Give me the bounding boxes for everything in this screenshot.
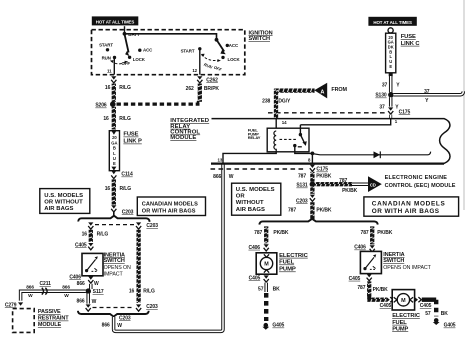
svg-text:LINK P: LINK P	[123, 139, 142, 145]
splice S117	[85, 288, 91, 294]
connector C175 (top)	[388, 107, 393, 114]
svg-text:W: W	[28, 293, 33, 299]
svg-text:C405: C405	[249, 275, 261, 281]
svg-text:C405: C405	[380, 303, 392, 309]
svg-text:PASSIVE: PASSIVE	[38, 309, 61, 315]
connector C405 left of pump (Canadian)	[387, 297, 394, 302]
inertia switch box (U.S.)	[82, 253, 103, 275]
connector C203 (lower U.S.)	[86, 304, 91, 311]
wire bend into pump (Canadian)	[367, 298, 386, 302]
svg-text:C114: C114	[121, 172, 133, 178]
svg-text:C203: C203	[119, 315, 131, 321]
svg-text:C279: C279	[5, 302, 17, 308]
wire 37 Y from S130 to right edge	[393, 91, 463, 94]
svg-text:WITHOUT: WITHOUT	[236, 200, 264, 206]
option box: U.S. models (left)	[40, 189, 90, 214]
svg-text:866: 866	[213, 174, 221, 180]
svg-text:CANADIAN MODELS: CANADIAN MODELS	[372, 201, 446, 208]
splice S206	[110, 101, 116, 107]
option box: Canadian models (left)	[137, 197, 205, 216]
wire 57 BK from pump (U.S.)	[264, 283, 268, 292]
module bottom edge (thick)	[211, 162, 444, 164]
ground G405 (Canadian)	[433, 318, 440, 325]
svg-text:C406: C406	[69, 274, 81, 280]
connector C203 (Canadian branch)	[136, 222, 141, 229]
fuse link P	[109, 131, 119, 171]
inertia switch box (Canadian)	[360, 251, 381, 273]
wire 262 BR/PK from pin 12	[198, 84, 202, 102]
module box with torn right edge	[212, 119, 451, 164]
svg-text:14: 14	[282, 120, 287, 125]
svg-text:AIR BAGS: AIR BAGS	[236, 207, 265, 213]
hot-at-all-times label (right)	[368, 17, 416, 26]
svg-text:787: 787	[339, 178, 347, 184]
svg-text:R/LG: R/LG	[119, 85, 131, 91]
wire 787 PK/BK from C203 to split	[310, 202, 314, 219]
svg-text:R/LG: R/LG	[97, 231, 109, 237]
svg-text:PK/BK: PK/BK	[342, 188, 358, 194]
svg-text:238: 238	[262, 98, 270, 104]
svg-text:OPENS ON: OPENS ON	[104, 265, 131, 271]
svg-text:C203: C203	[146, 223, 158, 229]
svg-text:866: 866	[77, 281, 85, 287]
svg-text:C262: C262	[206, 77, 218, 83]
svg-text:LOCK: LOCK	[228, 57, 241, 62]
svg-text:PK/BK: PK/BK	[316, 207, 332, 213]
svg-text:16: 16	[129, 288, 135, 294]
svg-text:R/LG: R/LG	[120, 186, 132, 192]
svg-text:W: W	[117, 323, 122, 329]
svg-text:CONTROL (EEC) MODULE: CONTROL (EEC) MODULE	[385, 183, 456, 189]
connector below pin 11	[111, 76, 116, 83]
svg-text:RESTRAINT: RESTRAINT	[38, 316, 69, 322]
splice S130	[388, 92, 394, 98]
svg-text:C405: C405	[75, 242, 87, 248]
svg-text:M: M	[264, 262, 269, 268]
connector C114	[111, 171, 116, 174]
off-page arrow A (FROM)	[314, 83, 327, 99]
wire 787 PK/BK from S131 down	[310, 187, 314, 194]
wire pin14 to relay coil	[275, 119, 277, 131]
connector C405 (U.S.)	[88, 243, 93, 250]
node BATT stub	[124, 26, 126, 34]
inertia switch symbol (U.S.)	[85, 256, 98, 272]
svg-text:C406: C406	[354, 245, 366, 251]
svg-text:FUSE: FUSE	[123, 132, 138, 138]
svg-text:A: A	[320, 90, 324, 96]
connector C175 (bottom)	[310, 165, 315, 172]
svg-text:C405: C405	[420, 303, 432, 309]
hot-at-all-times label (left)	[92, 16, 139, 25]
svg-text:IMPACT: IMPACT	[104, 271, 124, 277]
wire 866 W below merge	[112, 317, 116, 329]
wire 238 DG/Y down to module pin 14	[274, 89, 278, 119]
svg-text:W: W	[229, 174, 234, 180]
svg-text:866: 866	[26, 285, 34, 291]
svg-text:HOT AT ALL TIMES: HOT AT ALL TIMES	[373, 20, 412, 25]
svg-text:W: W	[94, 281, 99, 287]
selector arc (left section)	[111, 61, 127, 64]
svg-text:37: 37	[382, 83, 388, 89]
svg-text:HOT AT ALL TIMES: HOT AT ALL TIMES	[96, 19, 135, 24]
option box: U.S. models (middle)	[232, 183, 281, 215]
node BATT	[123, 32, 127, 36]
svg-text:C203: C203	[122, 209, 134, 215]
wire from START contact to pin 12	[199, 49, 201, 75]
module internal feed line from pin 1 to relay contact	[300, 119, 390, 125]
svg-text:S131: S131	[296, 183, 308, 189]
svg-text:ACC: ACC	[229, 43, 239, 48]
selector arc (right section)	[202, 55, 220, 61]
svg-text:ELECTRIC: ELECTRIC	[279, 253, 308, 259]
wire 57 BK (black, U.S.)	[264, 293, 268, 321]
svg-text:DG/Y: DG/Y	[278, 98, 291, 104]
svg-text:C175: C175	[316, 167, 328, 173]
svg-text:SWITCH: SWITCH	[249, 36, 271, 42]
svg-text:C406: C406	[248, 245, 260, 251]
svg-text:BK: BK	[273, 287, 281, 293]
svg-text:CD: CD	[370, 182, 376, 187]
svg-text:S130: S130	[375, 93, 387, 99]
svg-text:12: 12	[192, 68, 197, 73]
svg-text:PK/BK: PK/BK	[316, 174, 332, 180]
connector C405 (inertia, Canadian)	[367, 274, 372, 281]
connector C203 (main)	[111, 205, 116, 212]
svg-text:OR WITHOUT: OR WITHOUT	[44, 199, 83, 205]
svg-text:MODULE: MODULE	[170, 135, 196, 141]
dashed option line between lower C203 halves	[93, 307, 135, 309]
clamping diode D1	[313, 154, 429, 155]
svg-text:787: 787	[361, 230, 369, 236]
wire 37 Y fuse link C to S130	[389, 76, 393, 92]
ground G405 (U.S.)	[262, 323, 269, 330]
ignition switch dashed box	[92, 30, 245, 75]
wire 866 W below inertia switch	[89, 284, 93, 289]
dashed option separator (top)	[268, 112, 386, 114]
RUN OFF italic labels (right section)	[203, 62, 213, 70]
svg-text:G405: G405	[444, 323, 456, 329]
wire relay contact to pin 8	[295, 146, 313, 164]
wire segment: 262 BR/PK branch to S206 (dashed hatched)	[117, 102, 200, 105]
wire 37 Y from S130 down to C175	[389, 97, 393, 106]
svg-text:787: 787	[254, 230, 262, 236]
wire 16 R/LG Canadian branch	[136, 230, 140, 303]
svg-text:OR WITH AIR BAGS: OR WITH AIR BAGS	[372, 208, 440, 215]
svg-text:13: 13	[218, 158, 223, 163]
relay coil	[274, 131, 276, 152]
svg-text:RUN: RUN	[102, 56, 111, 61]
fuse link C	[386, 28, 396, 73]
wire 866 W from S117 to C279	[21, 291, 86, 300]
off-page arrow D to EEC	[368, 176, 382, 192]
svg-text:W: W	[64, 293, 69, 299]
junction at pin 8 line	[311, 152, 315, 156]
wire 866 W bottom run to module pin 13	[114, 165, 223, 332]
wire 787 PK/BK from C175 to S131	[310, 172, 314, 182]
svg-text:37: 37	[379, 105, 385, 111]
svg-text:PK/BK: PK/BK	[373, 287, 389, 293]
svg-text:866: 866	[77, 298, 85, 304]
wire relay coil to pin 13	[223, 152, 276, 164]
relay contact	[299, 125, 301, 134]
svg-text:OPENS ON IMPACT: OPENS ON IMPACT	[383, 265, 431, 271]
svg-text:FUSE: FUSE	[401, 34, 416, 40]
connector C203 (lower Canadian)	[136, 304, 141, 311]
passive restraint module dashed box	[13, 309, 35, 333]
fuel pump relay box	[267, 128, 309, 152]
connector C262	[197, 76, 202, 83]
relay linkage dashed	[280, 138, 297, 140]
pivot node (right section)	[215, 38, 219, 42]
connector C279	[18, 302, 23, 305]
svg-text:AIR BAGS: AIR BAGS	[44, 206, 73, 212]
svg-text:G405: G405	[272, 323, 284, 329]
svg-text:16: 16	[105, 186, 111, 192]
wire 787 PK/BK to inertia switch (Canadian)	[370, 226, 374, 244]
svg-text:S117: S117	[93, 289, 104, 295]
svg-text:LOCK: LOCK	[133, 57, 146, 62]
svg-text:PUMP: PUMP	[279, 267, 296, 273]
ignition switch wiper arm (left section)	[125, 34, 129, 53]
svg-text:MODULE: MODULE	[38, 322, 62, 328]
connector C406 (pump, U.S.)	[264, 244, 269, 251]
svg-text:SWITCH: SWITCH	[383, 258, 404, 264]
wire BATT feed to right switch section	[125, 34, 217, 39]
svg-text:BK: BK	[441, 311, 449, 317]
svg-text:PK/BK: PK/BK	[377, 230, 393, 236]
svg-text:866: 866	[62, 285, 70, 291]
svg-text:866: 866	[102, 322, 110, 328]
relay fixed contact	[293, 144, 296, 147]
svg-text:37: 37	[424, 89, 430, 95]
svg-text:FUEL: FUEL	[279, 260, 294, 266]
electric fuel pump M1 (U.S.)	[256, 253, 277, 274]
wire 16 R/LG to inertia switch (U.S.)	[89, 230, 93, 242]
wire 16 R/LG from S206 to fuse link P	[112, 107, 116, 130]
connector C406 (inertia, Canadian)	[370, 245, 375, 252]
svg-text:262: 262	[186, 86, 194, 92]
svg-text:START: START	[181, 49, 195, 54]
wire 238 DG/Y horizontal	[276, 88, 315, 92]
svg-text:U.S. MODELS: U.S. MODELS	[236, 187, 275, 193]
svg-text:787: 787	[298, 174, 306, 180]
svg-text:START: START	[99, 42, 113, 47]
svg-text:ACC: ACC	[143, 47, 153, 52]
svg-text:16: 16	[103, 116, 109, 122]
svg-text:C175: C175	[399, 109, 411, 115]
dashed option separator (below module)	[211, 168, 306, 170]
wire 787 PK/BK from inertia switch	[367, 281, 371, 297]
svg-text:16: 16	[82, 231, 88, 237]
electric fuel pump M2 (Canadian)	[392, 290, 414, 310]
svg-text:SWITCH: SWITCH	[104, 258, 125, 264]
svg-text:R/LG: R/LG	[143, 288, 155, 294]
wire 866 W from S117 down	[86, 294, 90, 304]
dashed option line between C203 halves	[95, 224, 134, 226]
merge bracket above C203 to single 866 W wire	[78, 311, 149, 317]
svg-text:PK/BK: PK/BK	[273, 230, 289, 236]
svg-text:FROM: FROM	[331, 87, 347, 93]
svg-text:16: 16	[105, 85, 111, 91]
wire 16 R/LG from C114 to C203	[112, 179, 116, 204]
wire 16 R/LG from pin 11	[112, 84, 116, 102]
connector C203 (U.S. branch)	[88, 222, 93, 229]
wire 57 BK thick from pump (Canadian)	[422, 298, 436, 302]
scan page border (right)	[463, 0, 465, 210]
svg-text:R/LG: R/LG	[119, 116, 131, 122]
svg-text:C203: C203	[146, 304, 158, 310]
svg-text:57: 57	[425, 311, 431, 317]
relay contact pivot	[299, 133, 302, 136]
svg-text:787: 787	[288, 207, 296, 213]
svg-text:OR: OR	[236, 194, 246, 200]
svg-text:E: E	[113, 161, 116, 166]
svg-text:E: E	[389, 64, 392, 69]
ignition switch wiper arm (right section)	[217, 40, 225, 52]
svg-text:57: 57	[258, 287, 264, 293]
wire from RUN contact to pin 11	[113, 58, 115, 75]
connector C211	[42, 288, 47, 295]
svg-text:CANADIAN MODELS: CANADIAN MODELS	[142, 202, 198, 208]
wire stub C203 to bracket	[113, 212, 115, 217]
svg-text:LINK C: LINK C	[401, 41, 421, 47]
svg-text:OR WITH AIR BAGS: OR WITH AIR BAGS	[142, 208, 196, 214]
splice bracket: C203 split to U.S. / Canadian branches	[78, 216, 149, 222]
connector C203 (787 circuit)	[310, 195, 315, 202]
svg-text:S206: S206	[95, 103, 107, 109]
wire 57 BK (black, Canadian)	[434, 300, 438, 317]
svg-text:ELECTRIC: ELECTRIC	[392, 313, 420, 319]
wire 787 PK/BK from S131 to EEC module	[315, 182, 352, 186]
svg-text:11: 11	[107, 69, 112, 74]
svg-text:C203: C203	[296, 198, 308, 204]
inertia switch symbol (Canadian)	[363, 254, 376, 270]
option box: Canadian models (right)	[364, 197, 459, 216]
svg-text:787: 787	[357, 285, 365, 291]
wire 37 Y into module pin	[389, 115, 392, 119]
connector C405 (pump, U.S.)	[264, 275, 269, 282]
svg-text:C211: C211	[40, 281, 52, 287]
wire 787 PK/BK to fuel pump (U.S.)	[264, 226, 268, 243]
svg-text:W: W	[92, 299, 97, 305]
svg-text:C405: C405	[349, 276, 361, 282]
svg-text:PUMP: PUMP	[392, 326, 408, 332]
connector C406 (U.S.)	[88, 276, 93, 283]
svg-text:U.S. MODELS: U.S. MODELS	[44, 193, 83, 199]
svg-text:M: M	[401, 298, 406, 304]
svg-text:RELAY: RELAY	[248, 135, 261, 140]
fuse link C lower terminal	[389, 73, 393, 76]
splice bracket: 787 split to U.S. / Canadian pumps	[259, 219, 377, 225]
svg-text:FUEL: FUEL	[392, 320, 407, 326]
splice S131	[310, 181, 316, 187]
svg-text:BR/PK: BR/PK	[204, 86, 220, 92]
svg-text:ELECTRONIC ENGINE: ELECTRONIC ENGINE	[385, 175, 448, 181]
connector C405 right of pump (Canadian)	[415, 297, 422, 302]
